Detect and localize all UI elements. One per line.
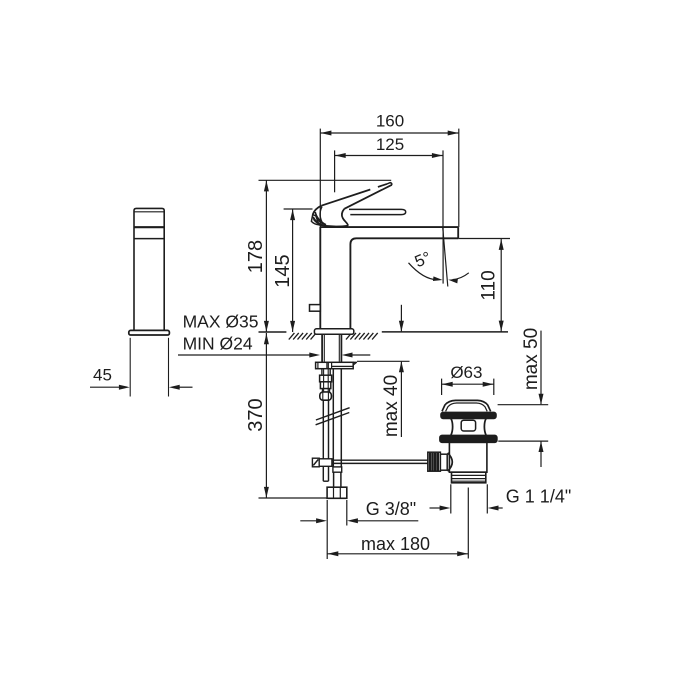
svg-text:max 180: max 180 <box>361 534 430 554</box>
svg-text:45: 45 <box>93 366 112 385</box>
svg-text:145: 145 <box>272 254 294 287</box>
svg-text:max 40: max 40 <box>381 375 402 437</box>
svg-text:370: 370 <box>245 398 267 431</box>
svg-text:160: 160 <box>376 111 404 130</box>
svg-text:125: 125 <box>376 135 404 154</box>
svg-text:G 3/8": G 3/8" <box>366 499 416 519</box>
svg-text:Ø63: Ø63 <box>450 363 482 382</box>
svg-text:178: 178 <box>245 240 267 273</box>
svg-text:MIN Ø24: MIN Ø24 <box>183 334 253 354</box>
svg-text:MAX Ø35: MAX Ø35 <box>183 311 259 331</box>
svg-text:110: 110 <box>479 270 500 300</box>
svg-text:max 50: max 50 <box>521 328 542 390</box>
svg-text:G 1 1/4": G 1 1/4" <box>506 486 571 506</box>
